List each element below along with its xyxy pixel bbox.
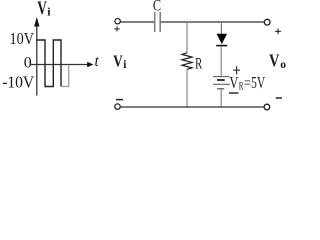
diode cathode bar <box>216 45 227 47</box>
svg-text:R: R <box>239 80 244 92</box>
svg-text:-10V: -10V <box>2 72 34 91</box>
svg-text:t: t <box>95 53 100 70</box>
vertical axis (Vi) <box>36 19 38 96</box>
plus sign input <box>114 26 119 31</box>
diode D (pointing down) <box>217 34 227 45</box>
svg-text:5V: 5V <box>251 73 265 92</box>
battery plate short 2 <box>217 88 224 90</box>
svg-text:o: o <box>280 59 286 71</box>
svg-text:0: 0 <box>24 54 32 71</box>
battery plate long 1 <box>213 76 230 78</box>
output terminal top <box>264 19 270 25</box>
diode branch wire top <box>220 22 222 34</box>
output terminal bottom <box>264 104 270 110</box>
svg-text:10V: 10V <box>10 29 35 48</box>
svg-text:C: C <box>153 0 161 15</box>
bottom wire <box>120 106 264 108</box>
minus sign output <box>276 97 282 99</box>
node Vi axis label <box>37 0 51 19</box>
resistor branch wire top <box>186 22 188 53</box>
svg-text:V: V <box>229 73 239 92</box>
square wave final segment (light) <box>62 65 69 86</box>
wire diode to battery <box>220 46 222 76</box>
input terminal top <box>115 19 120 24</box>
svg-text:R: R <box>195 56 203 73</box>
plus sign output <box>275 29 281 35</box>
input terminal bottom <box>115 104 120 109</box>
wire battery to bottom <box>220 89 222 107</box>
capacitor C plates <box>155 12 161 32</box>
svg-text:V: V <box>113 52 123 71</box>
svg-text:V: V <box>269 51 280 71</box>
svg-text:V: V <box>37 0 47 19</box>
battery plate long 2 <box>213 83 230 85</box>
node Vo label <box>269 51 286 71</box>
resistor R zigzag <box>182 53 192 70</box>
plus sign battery <box>233 66 240 74</box>
square wave (dark part) <box>37 40 61 87</box>
node Vi label <box>113 52 127 71</box>
top wire left of capacitor <box>120 21 154 23</box>
svg-text:i: i <box>123 59 127 71</box>
battery plate short thick <box>217 79 225 81</box>
svg-text:i: i <box>47 5 51 19</box>
horizontal axis (t) <box>31 64 89 66</box>
svg-text:=: = <box>244 75 251 92</box>
battery label VR=5V <box>229 73 265 92</box>
resistor branch wire bottom <box>186 69 188 107</box>
top wire right of capacitor <box>161 21 264 23</box>
underline under V <box>229 92 238 94</box>
minus sign input <box>116 99 123 101</box>
